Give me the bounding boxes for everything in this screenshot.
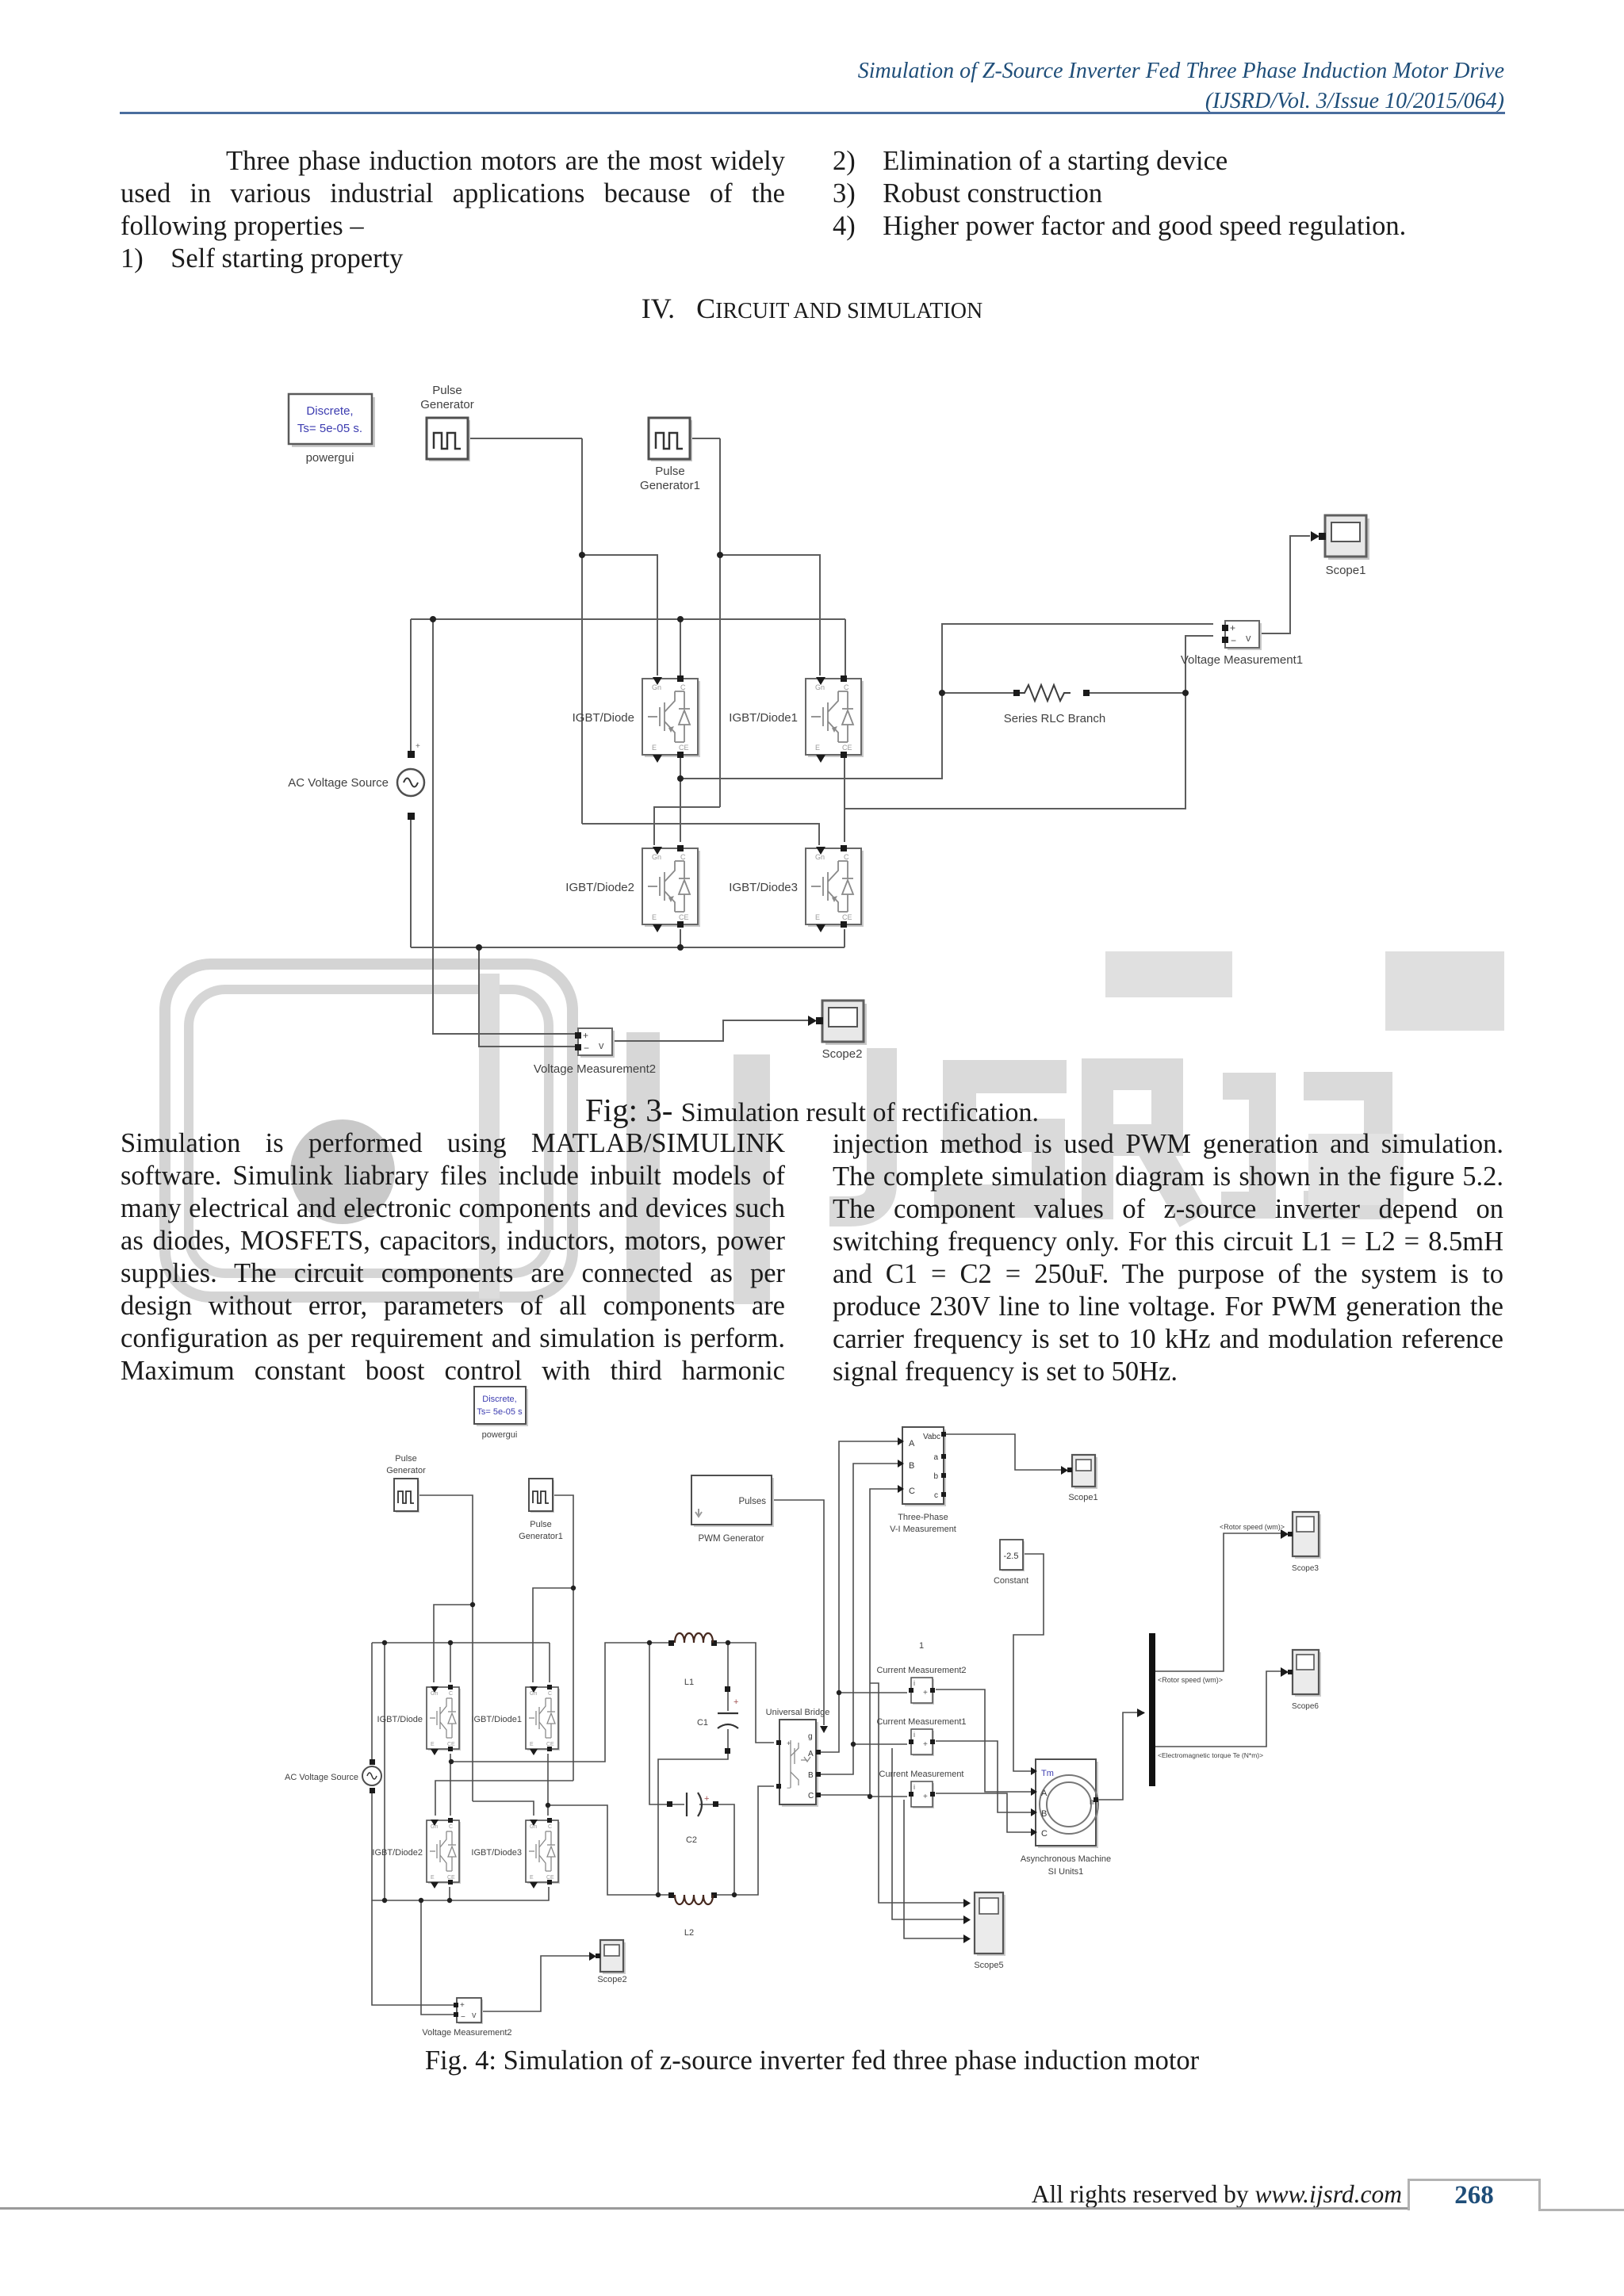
svg-text:Generator: Generator <box>386 1466 426 1475</box>
svg-text:Three-Phase: Three-Phase <box>898 1513 948 1522</box>
svg-text:Generator1: Generator1 <box>519 1532 563 1541</box>
wire: left phase leg continuation <box>680 779 681 842</box>
wire: AC source bottom lead <box>410 815 412 947</box>
capacitor C1 <box>725 1686 730 1692</box>
wire: Pulse Generator out <box>418 1495 473 1801</box>
svg-text:C: C <box>909 1487 915 1496</box>
svg-text:g: g <box>808 1732 813 1741</box>
svg-text:Asynchronous Machine: Asynchronous Machine <box>1021 1854 1111 1864</box>
Constant block <box>1002 1541 1025 1571</box>
Universal Bridge block <box>782 1722 818 1807</box>
svg-text:Tm: Tm <box>1041 1769 1054 1778</box>
wire: mid rail from IGBT/Diode emitter to RLC left <box>680 624 1213 779</box>
svg-text:Pulse: Pulse <box>395 1454 417 1464</box>
wire: C1 top lead <box>727 1643 729 1711</box>
svg-text:−: − <box>787 1784 791 1792</box>
svg-text:A: A <box>1041 1789 1048 1798</box>
svg-text:C1: C1 <box>697 1718 708 1728</box>
svg-text:-2.5: -2.5 <box>1004 1552 1019 1561</box>
wire: L2 rail to bridge minus <box>714 1786 774 1895</box>
IGBT/Diode2 <box>642 845 700 932</box>
svg-text:PWM Generator: PWM Generator <box>698 1534 764 1544</box>
header <box>858 56 1504 117</box>
wire: AC source top lead <box>371 1643 373 1762</box>
svg-text:Discrete,: Discrete, <box>306 404 353 418</box>
svg-text:L2: L2 <box>684 1928 694 1938</box>
wire: VM1 output to Scope1 <box>1259 536 1310 633</box>
svg-text:Scope6: Scope6 <box>1292 1702 1319 1711</box>
wire: PWM pulses to bridge gate <box>772 1500 824 1725</box>
wire: AC+ top rail <box>411 618 845 620</box>
wire: AC+ top bus <box>372 1642 550 1644</box>
svg-text:A: A <box>808 1750 814 1758</box>
pulse generator PG1 <box>530 1480 554 1513</box>
wire: AC source bottom lead to bottom bus <box>372 1789 549 1900</box>
IGBT/Diode <box>427 1685 461 1755</box>
wire: AC source top lead <box>410 619 412 752</box>
wire: tap to Voltage Measurement2 plus <box>433 619 575 1034</box>
FIG3: Simulink rectifier diagram <box>262 365 1427 1094</box>
svg-text:V-I Measurement: V-I Measurement <box>890 1525 956 1534</box>
svg-text:Current Measurement2: Current Measurement2 <box>876 1666 966 1675</box>
wire: VM2 output to Scope2 <box>611 1020 814 1041</box>
wire: to IGBT/Diode1 gate <box>720 555 820 675</box>
wire: Pulse Generator output to vertical bus <box>468 438 582 439</box>
svg-text:Scope1: Scope1 <box>1326 564 1366 577</box>
wire: scope5 feed b <box>892 1748 969 1919</box>
svg-text:Ts= 5e-05 s.: Ts= 5e-05 s. <box>297 422 362 435</box>
svg-text:Current Measurement: Current Measurement <box>879 1770 964 1779</box>
svg-text:+: + <box>704 1794 709 1804</box>
wire: RLC branch right lead <box>1086 692 1185 694</box>
IGBT/Diode2 <box>427 1818 461 1888</box>
svg-text:B: B <box>808 1771 814 1780</box>
scope Scope1 <box>1325 515 1369 560</box>
svg-text:AC Voltage Source: AC Voltage Source <box>285 1773 358 1782</box>
svg-text:Pulse: Pulse <box>655 465 685 478</box>
wire: DC- rail to L2 <box>548 1805 672 1895</box>
inductor L1 <box>668 1640 674 1646</box>
wire: VM2 out to Scope2 <box>480 1956 595 2011</box>
svg-text:Scope1: Scope1 <box>1068 1493 1097 1502</box>
capacitor C2 <box>667 1801 672 1807</box>
svg-text:Scope5: Scope5 <box>974 1961 1003 1970</box>
wire: scope5 feed c <box>904 1800 969 1938</box>
svg-text:IGBT/Diode2: IGBT/Diode2 <box>565 881 634 894</box>
svg-text:Discrete,: Discrete, <box>482 1395 516 1404</box>
svg-text:B: B <box>1041 1809 1047 1819</box>
svg-text:IGBT/Diode2: IGBT/Diode2 <box>372 1848 423 1858</box>
Current Measurement <box>909 1781 935 1808</box>
svg-text:IGBT/Diode: IGBT/Diode <box>573 711 634 725</box>
svg-text:L1: L1 <box>684 1678 694 1687</box>
wire: C2 right lead <box>699 1804 734 1895</box>
svg-text:Pulse: Pulse <box>432 384 462 397</box>
svg-text:IGBT/Diode1: IGBT/Diode1 <box>471 1715 522 1724</box>
wire: PG to IGBT/Diode3 gate <box>473 1801 534 1816</box>
IGBT/Diode3 <box>526 1818 560 1888</box>
IGBT/Diode3 <box>806 845 864 932</box>
svg-text:b: b <box>933 1472 938 1481</box>
scope Scope6 <box>1295 1652 1321 1697</box>
wire: right phase leg continuation <box>844 809 845 842</box>
svg-text:Constant: Constant <box>994 1576 1028 1586</box>
svg-text:Generator1: Generator1 <box>640 479 700 492</box>
svg-text:powergui: powergui <box>482 1430 518 1440</box>
wire: Constant to machine Tm <box>1013 1554 1044 1771</box>
bus selector bar <box>1149 1633 1155 1786</box>
wire: bridge A to V-I A <box>819 1441 898 1752</box>
Three Phase V-I Measurement block <box>905 1429 946 1506</box>
resistor: Series RLC Branch zigzag <box>1018 685 1071 701</box>
wire: IGBT/Diode1 collector drop <box>549 1643 550 1682</box>
svg-text:Pulses: Pulses <box>738 1497 766 1506</box>
wire: C tap to Current Measurement <box>870 1796 907 1797</box>
wire: IGBT/Diode2 emitter rise <box>680 929 681 947</box>
wire: phase leg right <box>547 1754 549 1816</box>
wire: B tap to Current Measurement1 <box>853 1743 907 1745</box>
svg-text:powergui: powergui <box>306 451 354 465</box>
svg-text:c: c <box>934 1491 938 1500</box>
section heading <box>0 293 1624 325</box>
wire: PG vertical down <box>581 438 583 824</box>
wire: scope5 feed a <box>870 1683 969 1903</box>
svg-text:Series RLC Branch: Series RLC Branch <box>1004 712 1105 725</box>
wire: IGBT/Diode collector drop <box>680 619 681 676</box>
wire: VM2 minus feed <box>421 1900 454 2015</box>
svg-text:v: v <box>472 2011 477 2020</box>
junction dots <box>430 552 1189 951</box>
top two-column text <box>121 145 785 275</box>
svg-text:−: − <box>461 2013 465 2022</box>
svg-text:C2: C2 <box>686 1835 697 1845</box>
svg-text:1: 1 <box>919 1641 924 1651</box>
caption fig 3 <box>0 1089 1624 1131</box>
wire: RLC branch left lead <box>942 692 1018 694</box>
wire: to IGBT/Diode gate <box>582 555 657 675</box>
wire: L1 to bridge plus <box>714 1643 774 1743</box>
PWM Generator block <box>694 1478 774 1527</box>
svg-text:<Rotor speed (wm)>: <Rotor speed (wm)> <box>1158 1676 1223 1684</box>
Current Measurement1 <box>909 1729 935 1756</box>
wire: PG to IGBT/Diode gate <box>434 1605 473 1682</box>
powergui block <box>477 1389 528 1426</box>
svg-text:AC Voltage Source: AC Voltage Source <box>288 776 389 790</box>
svg-text:+: + <box>787 1739 791 1747</box>
scope Scope2 <box>822 1001 867 1045</box>
IGBT/Diode1 <box>806 675 864 763</box>
wire: C2 left lead from top bus <box>649 1643 684 1804</box>
wire: Pulse Generator1 out <box>553 1495 573 1781</box>
svg-text:IGBT/Diode3: IGBT/Diode3 <box>471 1848 522 1858</box>
wire: CM1 out to machine B <box>936 1741 1031 1812</box>
wire: CM2 out to machine A <box>936 1689 1031 1792</box>
svg-text:Scope2: Scope2 <box>597 1975 626 1984</box>
wire: PG1 vertical down <box>719 438 721 807</box>
svg-text:Voltage Measurement2: Voltage Measurement2 <box>534 1062 656 1076</box>
wire: IGBT/Diode3 emitter rise <box>844 929 845 947</box>
middle two-column text <box>121 1127 785 1387</box>
svg-text:Scope3: Scope3 <box>1292 1564 1319 1573</box>
wire: phase leg left <box>450 1754 451 1816</box>
caption fig 4 <box>0 2045 1624 2077</box>
wire: IGBT/Diode2 emitter rise <box>449 1887 450 1900</box>
AC Voltage Source <box>362 1766 381 1785</box>
svg-text:Current Measurement1: Current Measurement1 <box>876 1717 966 1727</box>
wire: C1 bottom lead <box>658 1729 728 1895</box>
svg-text:B: B <box>909 1461 914 1471</box>
svg-text:Voltage Measurement1: Voltage Measurement1 <box>1181 653 1303 667</box>
svg-text:Vabc: Vabc <box>923 1433 940 1441</box>
svg-text:Pulse: Pulse <box>530 1520 552 1529</box>
wire: Vabc to Scope1 <box>944 1434 1066 1470</box>
wire: to IGBT/Diode3 gate <box>582 824 819 845</box>
wire: bar to Scope6 torque <box>1155 1671 1286 1747</box>
wire: DC+ rail to L1 <box>451 1643 672 1762</box>
scope Scope2 <box>600 1940 626 1974</box>
svg-text:Scope2: Scope2 <box>822 1047 863 1061</box>
wire: AC- bottom rail <box>411 947 845 948</box>
wire: Pulse Generator1 output <box>690 438 720 439</box>
inductor L2 <box>668 1892 674 1898</box>
svg-text:A: A <box>909 1439 915 1448</box>
wire: PG1 to IGBT/Diode2 gate <box>435 1781 573 1816</box>
svg-text:C: C <box>808 1792 814 1800</box>
voltage measurement VM1 <box>1222 621 1262 650</box>
footer <box>1032 2178 1402 2211</box>
Current Measurement2 <box>909 1678 935 1705</box>
svg-text:IGBT/Diode1: IGBT/Diode1 <box>729 711 798 725</box>
pulse generator PG <box>427 418 470 461</box>
svg-text:Generator: Generator <box>420 398 474 411</box>
wire: RLC right to VM1 minus <box>1185 636 1213 693</box>
svg-text:<Electromagnetic torque Te (N*: <Electromagnetic torque Te (N*m)> <box>1158 1751 1263 1759</box>
wire: bar to Scope3 rotor speed <box>1155 1533 1286 1671</box>
svg-text:Universal Bridge: Universal Bridge <box>766 1708 830 1717</box>
powergui block <box>292 397 375 447</box>
junction dots <box>382 1586 872 1903</box>
svg-text:C: C <box>1041 1829 1048 1839</box>
svg-text:SI Units1: SI Units1 <box>1048 1867 1084 1877</box>
wire: A tap to Current Measurement2 <box>839 1692 907 1693</box>
wire: VM2 plus feed <box>372 1900 454 2005</box>
voltage measurement VM2 <box>458 1999 483 2024</box>
svg-text:a: a <box>933 1453 938 1462</box>
pulse generator PG1 <box>649 418 692 461</box>
wire: tap to Voltage Measurement2 minus <box>479 947 575 1047</box>
wire: parallel vertical <box>384 1643 385 1900</box>
wire: PG1 to IGBT/Diode1 gate <box>533 1588 573 1682</box>
scope Scope1 <box>1072 1455 1097 1489</box>
AC Voltage Source <box>397 769 424 796</box>
IGBT/Diode1 <box>526 1685 560 1755</box>
svg-text:+: + <box>733 1697 738 1707</box>
wire: machine m to bus bar <box>1096 1712 1144 1800</box>
pulse generator PG <box>396 1480 419 1513</box>
svg-text:+: + <box>416 742 420 751</box>
wire: bridge B to V-I B <box>819 1464 898 1774</box>
wire: IGBT/Diode collector drop <box>450 1643 451 1682</box>
IGBT/Diode <box>642 675 700 763</box>
svg-text:<Rotor speed (wm)>: <Rotor speed (wm)> <box>1220 1523 1285 1531</box>
svg-text:Voltage Measurement2: Voltage Measurement2 <box>422 2028 511 2038</box>
wire: IGBT/Diode1 collector drop <box>845 619 846 676</box>
wire: CM out to machine C <box>936 1793 1031 1832</box>
wire: to IGBT/Diode2 gate <box>654 807 720 845</box>
FIG4: Simulink z-source inverter diagram <box>278 1380 1356 2049</box>
Asynchronous Machine block <box>1038 1762 1098 1848</box>
svg-text:IGBT/Diode: IGBT/Diode <box>377 1715 423 1724</box>
voltage measurement VM2 <box>575 1028 615 1058</box>
scope Scope3 <box>1295 1514 1321 1559</box>
svg-text:IGBT/Diode3: IGBT/Diode3 <box>729 881 798 894</box>
svg-text:+: + <box>460 2001 465 2010</box>
svg-text:Ts= 5e-05 s: Ts= 5e-05 s <box>477 1407 523 1417</box>
wire: IGBT/Diode1 emitter to RLC right node <box>845 693 1185 809</box>
wire: bridge C to V-I C <box>819 1489 898 1795</box>
scope Scope5 <box>977 1895 1005 1956</box>
